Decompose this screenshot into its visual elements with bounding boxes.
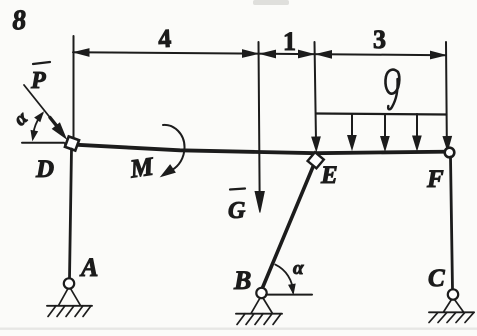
load label q [385, 70, 399, 94]
svg-text:D: D [35, 156, 54, 183]
angle alpha arc at D [33, 114, 43, 139]
svg-text:B: B [233, 266, 251, 295]
svg-text:3: 3 [373, 25, 386, 54]
bar D-A [70, 149, 72, 279]
extension line above D [73, 36, 75, 138]
extension line above E [315, 42, 317, 141]
dim arrows at G extension [243, 50, 258, 58]
svg-text:8: 8 [11, 5, 27, 37]
bar E-B [262, 166, 314, 290]
svg-text:A: A [79, 253, 98, 282]
pin support B [256, 288, 266, 298]
svg-text:E: E [320, 162, 338, 189]
force G arrowhead [255, 192, 264, 213]
scan smudge top [253, 0, 289, 5]
load arrow 4 [416, 114, 418, 137]
svg-text:α: α [293, 258, 304, 279]
load arrow 2 [351, 114, 353, 136]
svg-text:M: M [127, 151, 156, 183]
scan streak bottom [0, 328, 477, 330]
pin support C [448, 289, 458, 299]
dim arrow at D (left end) [74, 49, 89, 57]
force P arrow [24, 85, 52, 120]
load arrow 1 (at E) [312, 137, 320, 151]
svg-text:4: 4 [157, 24, 171, 54]
distributed load q top line [317, 114, 447, 115]
angle alpha arc at B [275, 265, 293, 293]
angle reference line at B [266, 294, 312, 296]
node D (hinge square) [65, 136, 79, 150]
angle reference line at D [22, 142, 64, 144]
moment M arc [163, 125, 185, 170]
load arrow 5 (at F) [443, 136, 451, 150]
ground at C [429, 311, 474, 313]
load arrow 3 [384, 114, 386, 137]
svg-text:F: F [426, 166, 444, 193]
svg-text:1: 1 [283, 27, 296, 56]
label G bar [230, 189, 245, 190]
dim arrow at F (right end) [431, 51, 446, 59]
ground at B [236, 313, 282, 315]
svg-text:P: P [30, 68, 46, 94]
ground at A [47, 305, 92, 307]
extension line / force G line [259, 42, 260, 191]
bar F-C [451, 157, 453, 290]
label P bar [33, 62, 50, 64]
node F (hinge circle) [445, 148, 455, 158]
pin support A [64, 278, 74, 288]
beam D-E-F [66, 144, 452, 153]
dim arrows at E extension [299, 50, 314, 58]
svg-text:G: G [228, 198, 246, 224]
dimension line [73, 52, 446, 55]
svg-text:C: C [428, 265, 445, 292]
extension line above F [445, 42, 448, 138]
svg-text:α: α [10, 107, 32, 130]
